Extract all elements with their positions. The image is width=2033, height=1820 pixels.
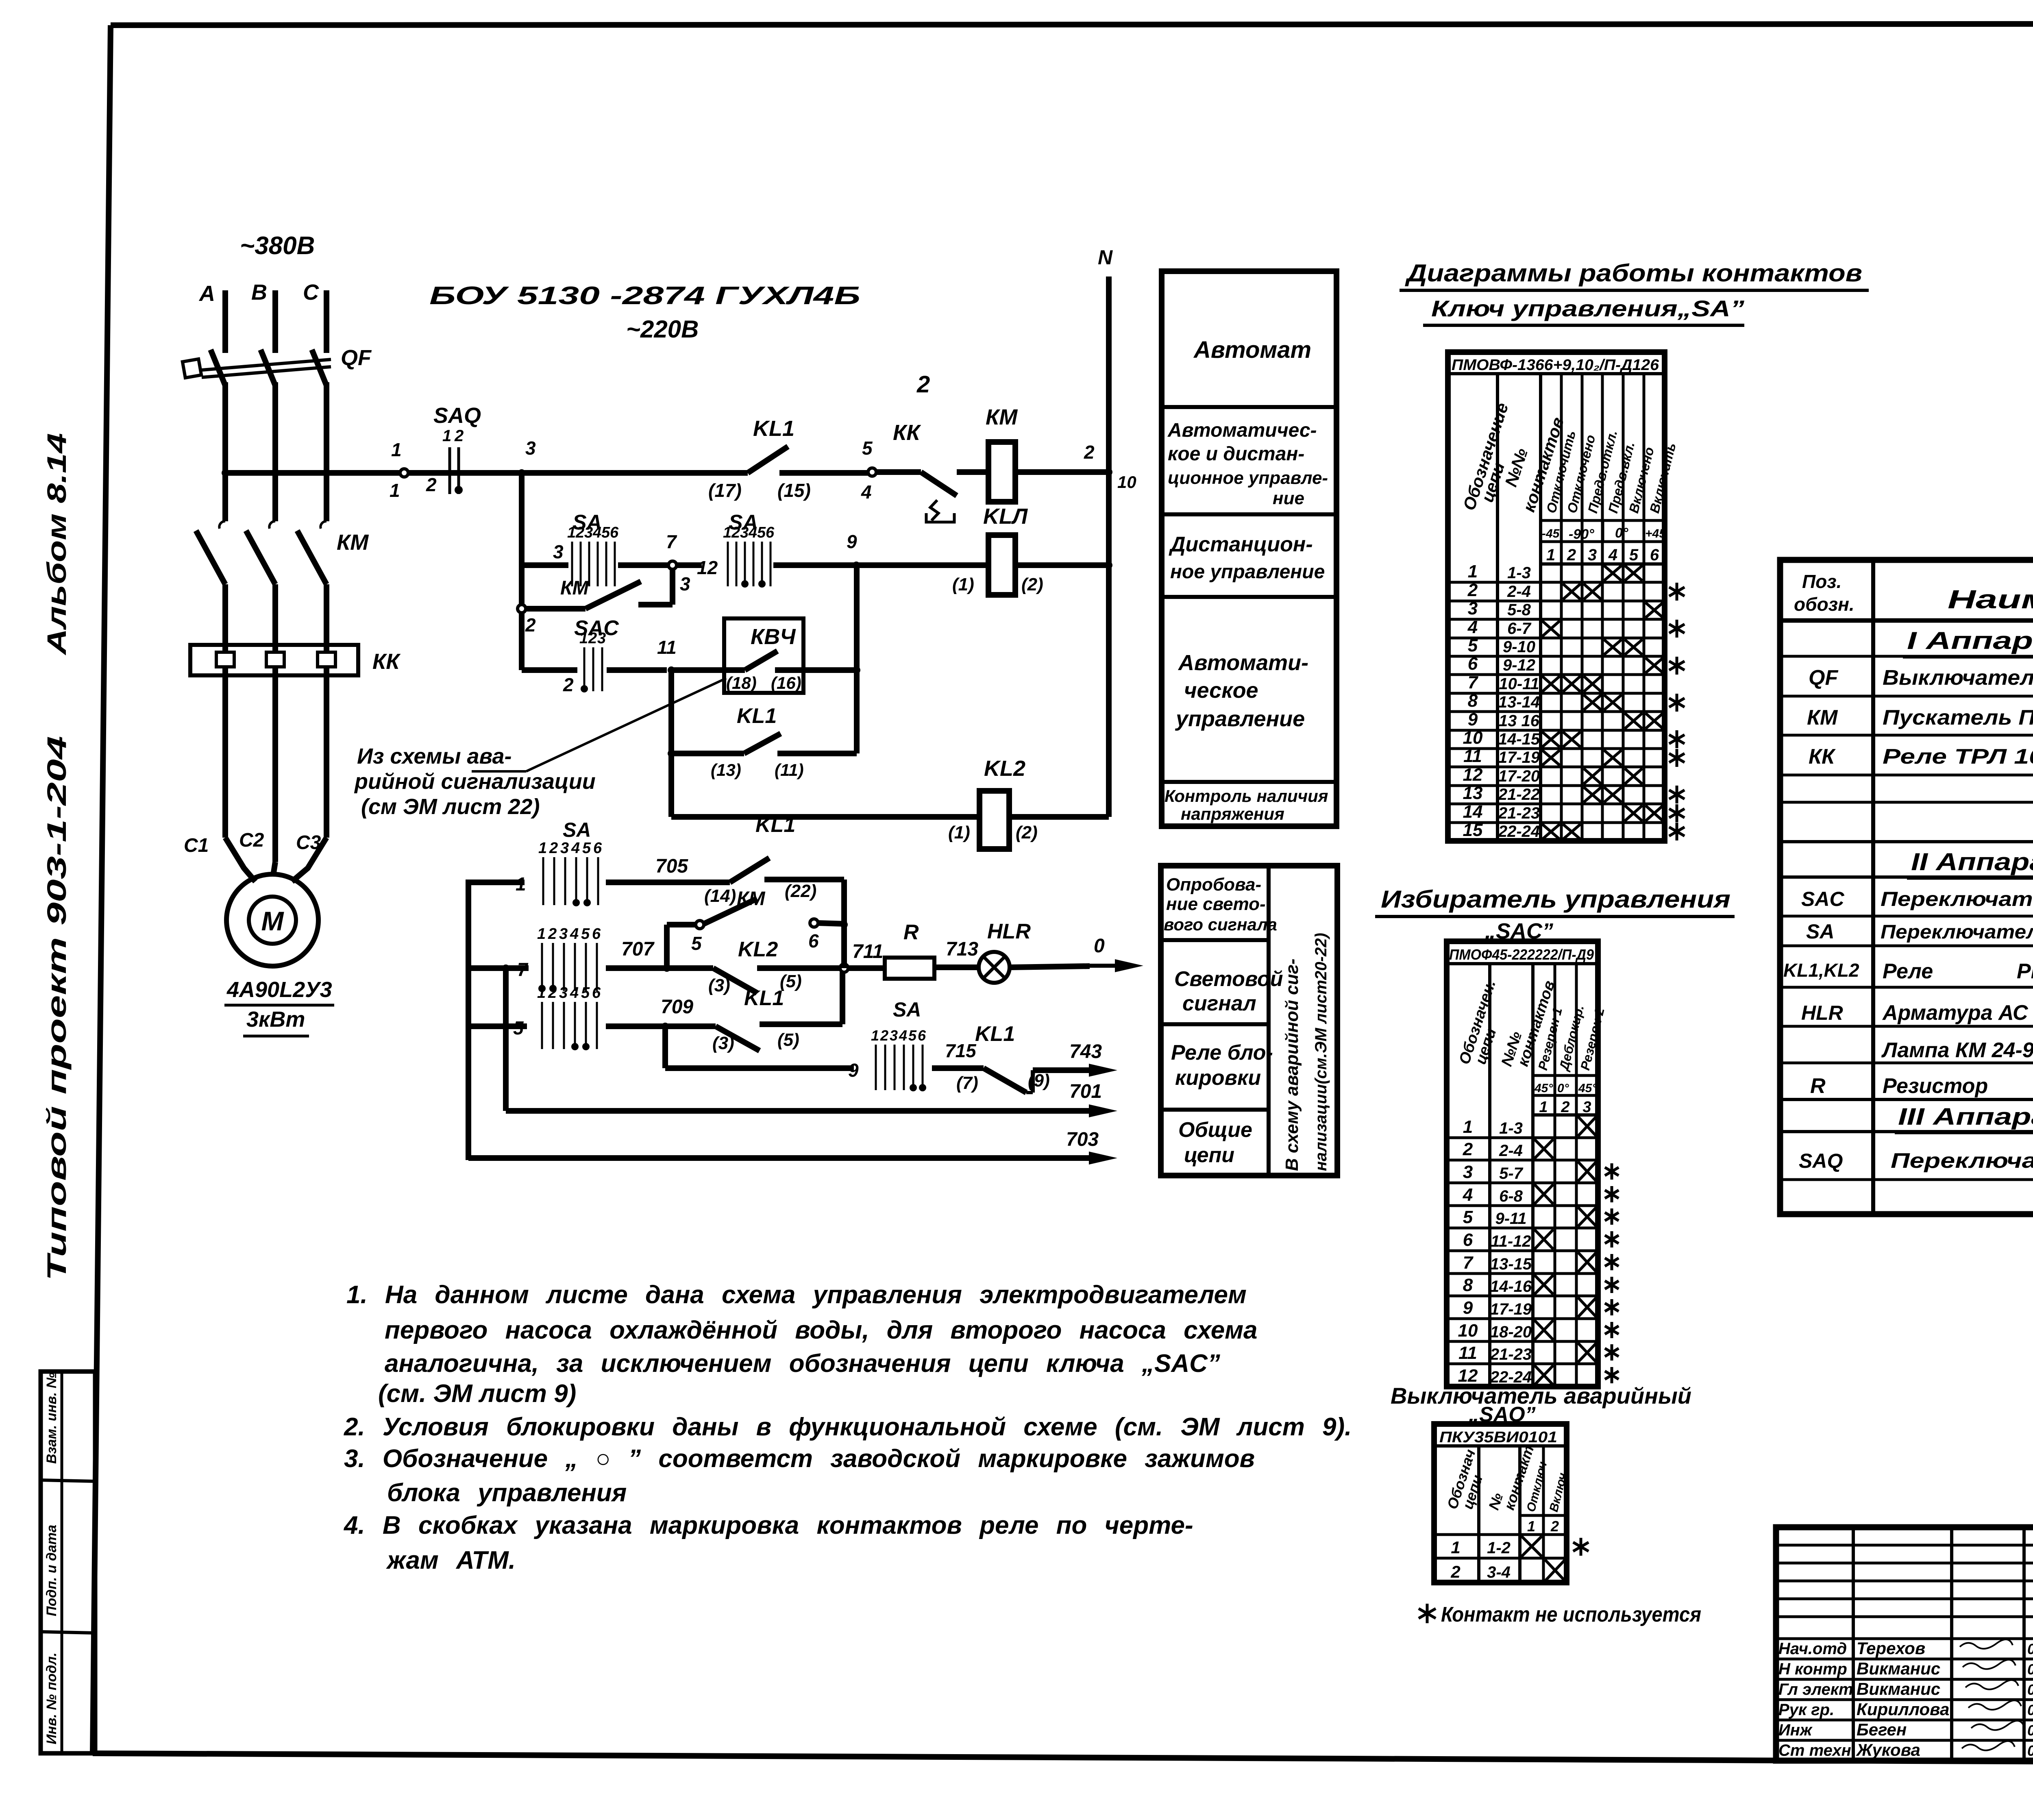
svg-text:ПМОФ45-222222/П-Д9: ПМОФ45-222222/П-Д9 (1449, 946, 1594, 963)
svg-text:6-7: 6-7 (1507, 620, 1532, 638)
svg-text:Опробова-: Опробова- (1166, 875, 1261, 895)
key switch SA row 707 (circuit 7) (468, 965, 529, 971)
svg-text:709: 709 (661, 996, 693, 1018)
svg-text:4: 4 (748, 524, 757, 541)
wire left boundary of signal circuit (468, 882, 525, 1160)
wires KM to KK (222, 584, 228, 645)
table: emergency switch SAQ (1434, 1424, 1567, 1583)
svg-text:09 83: 09 83 (2027, 1661, 2033, 1678)
svg-text:3: 3 (553, 541, 564, 562)
svg-text:Беген: Беген (1857, 1720, 1907, 1739)
wire/arrow 701 (502, 964, 509, 972)
svg-text:6: 6 (808, 930, 819, 951)
svg-text:(см. ЭМ лист 9): (см. ЭМ лист 9) (378, 1380, 576, 1408)
svg-text:13-14: 13-14 (1498, 693, 1540, 711)
svg-text:(2): (2) (1016, 823, 1038, 843)
svg-text:SA: SA (563, 819, 591, 841)
svg-text:2: 2 (880, 1027, 888, 1044)
svg-text:711: 711 (852, 941, 884, 962)
svg-text:10: 10 (1458, 1321, 1478, 1341)
svg-text:6: 6 (1463, 1230, 1473, 1250)
svg-text:03 81: 03 81 (2027, 1641, 2033, 1657)
wire/arrow 0 (1010, 966, 1090, 967)
svg-text:4: 4 (570, 984, 579, 1001)
svg-text:~220В: ~220В (626, 316, 699, 343)
svg-text:Викманис: Викманис (1857, 1659, 1940, 1678)
svg-text:(13): (13) (711, 760, 741, 779)
svg-text:~380В: ~380В (240, 232, 315, 260)
margin stamp boxes (Взам.инв.№ / Подп. и дата / Инв.№ подл.) (41, 1372, 95, 1753)
svg-text:5: 5 (513, 1017, 524, 1038)
svg-text:С3: С3 (296, 832, 321, 853)
svg-text:Викманис: Викманис (1857, 1679, 1940, 1698)
svg-text:09 83: 09 83 (2027, 1681, 2033, 1698)
svg-text:Из схемы ава-: Из схемы ава- (357, 744, 512, 768)
svg-text:4: 4 (1467, 617, 1478, 637)
svg-text:6-8: 6-8 (1499, 1187, 1523, 1205)
svg-text:5: 5 (1468, 636, 1478, 655)
svg-text:цепи: цепи (1184, 1143, 1234, 1167)
svg-text:3: 3 (1468, 599, 1478, 618)
svg-text:9: 9 (847, 531, 857, 552)
thermal relay KK heaters (190, 645, 358, 675)
svg-text:КК: КК (372, 649, 401, 674)
svg-text:45°: 45° (1578, 1082, 1597, 1095)
svg-text:(1): (1) (948, 823, 970, 843)
svg-text:KL2: KL2 (738, 938, 778, 961)
svg-text:2: 2 (916, 371, 930, 398)
table: parts list (1780, 560, 2033, 1214)
table: key switch SA contact diagram (1448, 352, 1665, 841)
svg-text:(7): (7) (956, 1073, 978, 1093)
svg-text:рийной сигнализации: рийной сигнализации (354, 769, 596, 794)
svg-text:С: С (303, 280, 319, 305)
signature rows (1776, 1658, 2033, 1661)
svg-text:5-7: 5-7 (1499, 1165, 1524, 1182)
svg-text:09 83: 09 83 (2027, 1702, 2033, 1718)
svg-text:КВЧ: КВЧ (751, 625, 796, 649)
svg-text:12: 12 (1463, 765, 1483, 785)
svg-text:ние свето-: ние свето- (1166, 894, 1266, 914)
svg-text:Типовой проект 903-1-204: Типовой проект 903-1-204 (41, 736, 72, 1281)
contactor aux contact KM (5)-(6) (664, 925, 670, 968)
svg-text:ние: ние (1273, 488, 1304, 508)
svg-text:7: 7 (1463, 1253, 1474, 1273)
svg-text:8: 8 (1463, 1275, 1473, 1295)
svg-text:N: N (1098, 246, 1113, 269)
svg-text:Диаграммы работы контактов: Диаграммы работы контактов (1404, 259, 1862, 287)
svg-text:(см ЭМ лист 22): (см ЭМ лист 22) (361, 795, 540, 819)
svg-text:вого сигнала: вого сигнала (1164, 915, 1277, 934)
svg-text:SAQ: SAQ (433, 403, 481, 428)
svg-text:1: 1 (1463, 1117, 1473, 1137)
svg-text:ПМОВФ-1366+9,10₂/П-Д126: ПМОВФ-1366+9,10₂/П-Д126 (1452, 357, 1659, 374)
svg-text:13: 13 (1463, 783, 1483, 803)
svg-text:4: 4 (571, 840, 580, 857)
wire vertical from node 9 (854, 565, 860, 753)
svg-text:5: 5 (1629, 546, 1639, 564)
svg-text:1: 1 (537, 984, 546, 1001)
svg-text:45°: 45° (1534, 1082, 1553, 1095)
svg-text:(3): (3) (712, 1033, 734, 1053)
wire: main control bus (222, 469, 229, 477)
svg-text:+45: +45 (1645, 527, 1666, 540)
svg-text:5: 5 (908, 1027, 917, 1044)
svg-text:2: 2 (1567, 546, 1576, 564)
svg-text:Переключатель ПКУ3-58И0101: Переключатель ПКУ3-58И0101 (1891, 1149, 2033, 1173)
svg-text:Избиратель управления: Избиратель управления (1381, 886, 1730, 913)
svg-text:III Аппараты у электродвига: III Аппараты у электродвигателя (1898, 1104, 2033, 1130)
svg-text:II Аппараты на щите КИП: II Аппараты на щите КИП (1911, 848, 2033, 875)
svg-text:КМ: КМ (986, 405, 1018, 429)
svg-text:9-10: 9-10 (1503, 638, 1535, 656)
svg-text:5: 5 (601, 524, 610, 541)
svg-text:1: 1 (538, 840, 547, 857)
svg-text:2. Условия блокировки дан: 2. Условия блокировки даны в функциональ… (344, 1413, 1352, 1441)
svg-text:7: 7 (1468, 673, 1479, 692)
svg-text:нализации(см.ЭМ лист20-22): нализации(см.ЭМ лист20-22) (1312, 933, 1330, 1171)
svg-text:-45: -45 (1542, 527, 1560, 540)
svg-text:жам АТМ.: жам АТМ. (386, 1546, 516, 1574)
svg-text:аналогична, за исключением: аналогична, за исключением обозначения ц… (385, 1350, 1220, 1378)
svg-text:кое и дистан-: кое и дистан- (1168, 443, 1304, 465)
svg-text:Дистанцион-: Дистанцион- (1169, 533, 1313, 556)
svg-text:4. В скобках указана марк: 4. В скобках указана маркировка контакто… (343, 1511, 1193, 1539)
svg-text:21-23: 21-23 (1498, 804, 1540, 822)
svg-text:1: 1 (567, 524, 576, 541)
relay contact KL1 (13)-(11) (668, 670, 674, 817)
svg-text:2: 2 (454, 427, 464, 445)
svg-text:09 83: 09 83 (2027, 1722, 2033, 1739)
svg-text:2: 2 (549, 840, 558, 857)
svg-text:6: 6 (592, 984, 601, 1001)
svg-text:КМ: КМ (560, 577, 589, 599)
svg-text:В схему аварийной сиг-: В схему аварийной сиг- (1282, 958, 1302, 1171)
svg-text:Реле ТРЛ 1010 04 Iуст: Реле ТРЛ 1010 04 Iуст 6,1А (1883, 745, 2033, 768)
svg-text:Резистор: Резистор (1883, 1074, 1988, 1098)
svg-text:1-3: 1-3 (1507, 564, 1531, 582)
sheet frame border (111, 24, 2033, 25)
svg-text:напряжения: напряжения (1181, 804, 1284, 823)
svg-text:Контакт не используется: Контакт не используется (1441, 1603, 1701, 1626)
contactor aux contact KM bypass (519, 565, 525, 605)
svg-text:713: 713 (946, 938, 978, 960)
svg-text:3: 3 (890, 1027, 898, 1044)
svg-text:Световой: Световой (1174, 967, 1283, 991)
svg-text:2: 2 (1550, 1518, 1559, 1535)
svg-text:1: 1 (537, 925, 546, 943)
svg-text:5: 5 (1463, 1207, 1473, 1227)
svg-text:2: 2 (1450, 1562, 1460, 1581)
svg-text:KL1: KL1 (744, 986, 784, 1010)
svg-text:3-4: 3-4 (1487, 1563, 1511, 1581)
function label column (upper) (1162, 271, 1336, 826)
svg-text:КМ: КМ (337, 530, 369, 555)
svg-text:1: 1 (391, 439, 402, 460)
svg-text:1: 1 (442, 427, 451, 445)
svg-text:10: 10 (1117, 472, 1136, 492)
svg-text:6: 6 (592, 925, 601, 943)
svg-text:R: R (1810, 1074, 1826, 1098)
svg-text:17-19: 17-19 (1498, 749, 1540, 766)
svg-text:2: 2 (588, 630, 597, 647)
function label column (lower) (1161, 866, 1337, 1176)
svg-text:2: 2 (563, 674, 574, 695)
svg-text:09 83: 09 83 (2027, 1742, 2033, 1759)
svg-text:1. На данном листе дана с: 1. На данном листе дана схема управления… (346, 1281, 1247, 1309)
svg-text:HLR: HLR (987, 920, 1031, 943)
svg-text:I Аппараты на НКУ: I Аппараты на НКУ (1907, 627, 2033, 654)
svg-text:2: 2 (1561, 1099, 1569, 1116)
svg-text:21-23: 21-23 (1490, 1345, 1532, 1363)
svg-text:715: 715 (945, 1040, 977, 1061)
svg-text:SAC: SAC (1801, 888, 1844, 910)
svg-text:21-22: 21-22 (1498, 786, 1540, 803)
title block (1776, 1527, 2033, 1761)
svg-text:А: А (198, 281, 215, 306)
key switch SA (circuit 3-7) (522, 562, 568, 568)
phase wires below QF (222, 382, 228, 521)
svg-text:1: 1 (1468, 562, 1478, 581)
svg-text:ционное управле-: ционное управле- (1168, 468, 1328, 488)
svg-text:2-4: 2-4 (1507, 583, 1531, 601)
svg-text:13-15: 13-15 (1490, 1255, 1532, 1273)
svg-text:Поз.: Поз. (1802, 571, 1841, 592)
svg-text:701: 701 (1069, 1081, 1102, 1102)
svg-text:(22): (22) (785, 881, 816, 901)
svg-text:1: 1 (1546, 546, 1555, 564)
svg-text:3: 3 (525, 438, 536, 459)
note: контакт не используется (1426, 1604, 1429, 1623)
svg-text:14-16: 14-16 (1490, 1278, 1532, 1295)
svg-text:9: 9 (848, 1060, 859, 1081)
svg-text:3: 3 (559, 984, 568, 1001)
svg-text:3: 3 (1588, 546, 1597, 564)
node 2/10 on N (1105, 468, 1112, 476)
contact block KV4 (18)-(16) (724, 618, 803, 693)
svg-text:1-2: 1-2 (1487, 1539, 1511, 1557)
svg-text:Нач.отд: Нач.отд (1778, 1640, 1847, 1658)
svg-text:9-11: 9-11 (1495, 1210, 1526, 1228)
svg-text:7: 7 (666, 531, 677, 552)
svg-text:3: 3 (680, 573, 690, 594)
svg-text:(14): (14) (704, 886, 736, 906)
svg-text:0°: 0° (1557, 1082, 1569, 1095)
svg-text:Жукова: Жукова (1856, 1740, 1920, 1759)
svg-text:РПУ-2: РПУ-2 (2017, 960, 2033, 983)
relay coil KL2 (1)-(2) (671, 814, 979, 820)
svg-text:11: 11 (657, 637, 677, 658)
svg-text:18-20: 18-20 (1490, 1323, 1532, 1341)
svg-text:(17): (17) (708, 480, 742, 501)
svg-text:0°: 0° (1615, 525, 1628, 541)
svg-text:4: 4 (861, 481, 872, 503)
svg-text:2: 2 (1084, 442, 1095, 463)
svg-text:0: 0 (1094, 935, 1105, 957)
svg-text:В: В (251, 280, 267, 305)
svg-text:4: 4 (1608, 546, 1617, 564)
wire/arrow 743 (1033, 1067, 1090, 1073)
svg-text:Н контр: Н контр (1778, 1660, 1847, 1678)
relay contact KL1 (17)-(15) on bus (748, 446, 788, 473)
svg-text:3: 3 (559, 925, 568, 943)
svg-text:17-19: 17-19 (1490, 1300, 1532, 1318)
svg-text:Арматура АС 1201 1У2: Арматура АС 1201 1У2 (1882, 1001, 2033, 1025)
svg-text:3: 3 (560, 840, 569, 857)
svg-text:Реле бло-: Реле бло- (1171, 1041, 1273, 1065)
svg-text:2: 2 (548, 925, 557, 943)
svg-text:(5): (5) (777, 1030, 799, 1050)
svg-text:2: 2 (731, 524, 740, 541)
svg-text:1: 1 (579, 630, 588, 647)
wire down to row 715 (662, 1026, 668, 1068)
svg-text:3: 3 (740, 524, 749, 541)
svg-text:R: R (903, 921, 919, 944)
svg-text:5: 5 (757, 524, 766, 541)
svg-text:KLЛ: KLЛ (983, 504, 1028, 529)
svg-text:Альбом 8.14: Альбом 8.14 (41, 433, 72, 656)
svg-text:5: 5 (691, 933, 702, 954)
svg-text:6: 6 (766, 524, 775, 541)
svg-text:2: 2 (1463, 1139, 1473, 1159)
svg-text:14-15: 14-15 (1498, 730, 1540, 748)
svg-text:5: 5 (581, 984, 590, 1001)
svg-text:6: 6 (1650, 546, 1659, 564)
svg-text:703: 703 (1066, 1129, 1099, 1150)
svg-text:4: 4 (570, 925, 579, 943)
svg-text:первого насоса охлаждённой: первого насоса охлаждённой воды, для вто… (385, 1316, 1258, 1344)
svg-text:Автомат: Автомат (1193, 337, 1311, 363)
svg-text:743: 743 (1069, 1041, 1102, 1062)
svg-text:Ст техн: Ст техн (1778, 1742, 1851, 1759)
svg-text:5-8: 5-8 (1507, 601, 1531, 619)
svg-text:12: 12 (697, 557, 718, 578)
svg-text:5: 5 (582, 840, 591, 857)
svg-text:БОУ 5130 -2874 ГУХЛ4Б: БОУ 5130 -2874 ГУХЛ4Б (429, 282, 860, 310)
svg-text:11: 11 (1463, 746, 1482, 766)
svg-text:8: 8 (1468, 691, 1478, 711)
svg-text:ное управление: ное управление (1170, 561, 1325, 583)
svg-text:Пускатель ПМЛ-110004БИ~220В: Пускатель ПМЛ-110004БИ~220В (1883, 706, 2033, 729)
svg-text:Инв. № подл.: Инв. № подл. (44, 1652, 59, 1744)
svg-text:QF: QF (1809, 666, 1838, 690)
svg-text:Выключатель аварийный: Выключатель аварийный (1391, 1383, 1691, 1409)
svg-text:ческое: ческое (1184, 678, 1258, 703)
svg-text:KL1: KL1 (737, 704, 777, 728)
node 7/3 terminal (668, 561, 677, 569)
wire/arrow 703 (468, 1155, 1090, 1161)
svg-text:QF: QF (341, 346, 372, 370)
svg-text:9: 9 (1463, 1298, 1473, 1318)
svg-text:Рук гр.: Рук гр. (1778, 1701, 1834, 1719)
svg-text:KL1,KL2: KL1,KL2 (1783, 960, 1859, 981)
svg-text:17-20: 17-20 (1498, 767, 1540, 785)
svg-text:SA: SA (1806, 920, 1834, 943)
svg-text:Автомати-: Автомати- (1178, 651, 1308, 675)
svg-text:4: 4 (592, 524, 601, 541)
svg-text:4: 4 (899, 1027, 907, 1044)
svg-text:9-12: 9-12 (1503, 656, 1535, 674)
svg-text:2-4: 2-4 (1499, 1142, 1523, 1160)
svg-text:3: 3 (584, 524, 593, 541)
svg-text:1: 1 (871, 1027, 879, 1044)
svg-text:1-3: 1-3 (1499, 1119, 1523, 1137)
wire down to SAC row (519, 613, 525, 670)
svg-text:КК: КК (1809, 745, 1836, 768)
svg-text:2: 2 (575, 524, 584, 541)
svg-text:обозн.: обозн. (1794, 594, 1855, 615)
svg-text:2: 2 (525, 614, 536, 636)
resistor R (848, 965, 885, 971)
svg-text:6: 6 (610, 524, 619, 541)
svg-text:С2: С2 (239, 829, 264, 851)
svg-text:Кириллова: Кириллова (1857, 1700, 1949, 1719)
svg-text:Инж: Инж (1778, 1721, 1813, 1739)
svg-text:6: 6 (593, 840, 602, 857)
phase wires A,B,C top (222, 290, 228, 353)
svg-text:Наименование: Наименование (1948, 585, 2033, 614)
svg-text:Лампа КМ 24-90: Лампа КМ 24-90 (1881, 1038, 2033, 1062)
node 5/4 terminal (868, 468, 876, 476)
key switch SA row 709 (circuit 5) (468, 1023, 527, 1029)
svg-text:11-12: 11-12 (1491, 1232, 1531, 1250)
svg-text:3. Обозначение „ ○ ” соот: 3. Обозначение „ ○ ” соответст заводской… (344, 1445, 1255, 1473)
relay contact KL1 (14)-(22) row 705 (730, 858, 769, 882)
svg-text:3: 3 (1582, 1099, 1591, 1116)
svg-text:6: 6 (1468, 654, 1478, 674)
wire: node3 down (519, 473, 525, 565)
svg-text:Переключатель ПМОВФ 1366+9,10₂: Переключатель ПМОВФ 1366+9,10₂/П-Д126 (1881, 921, 2033, 943)
svg-text:KL1: KL1 (755, 813, 795, 837)
svg-text:11: 11 (1458, 1343, 1477, 1363)
svg-text:(3): (3) (708, 975, 730, 995)
svg-text:4: 4 (1463, 1185, 1473, 1205)
svg-text:ВыключательАЕ2016-10НУЗ Iр 8: ВыключательАЕ2016-10НУЗ Iр 8А (1883, 666, 2033, 690)
svg-text:7: 7 (517, 959, 529, 980)
svg-text:1: 1 (1451, 1538, 1460, 1557)
svg-text:-90°: -90° (1569, 527, 1594, 542)
svg-text:(2): (2) (1021, 575, 1043, 594)
svg-text:10: 10 (1463, 728, 1483, 748)
svg-text:707: 707 (621, 938, 655, 960)
svg-text:(11): (11) (775, 760, 804, 779)
contactor KM main contacts (219, 521, 225, 529)
svg-text:22-24: 22-24 (1498, 823, 1540, 840)
wire vertical 705->707 (841, 880, 847, 968)
svg-text:KL1: KL1 (753, 416, 794, 441)
svg-text:KL1: KL1 (975, 1022, 1015, 1046)
svg-text:блока управления: блока управления (387, 1479, 627, 1507)
svg-text:КМ: КМ (1807, 706, 1838, 729)
svg-text:2: 2 (548, 984, 557, 1001)
motor M (226, 874, 318, 966)
wires KK to motor (222, 675, 228, 838)
svg-text:6: 6 (918, 1027, 926, 1044)
svg-text:KL2: KL2 (984, 756, 1025, 781)
svg-text:Ключ управления„SA”: Ключ управления„SA” (1431, 296, 1744, 321)
table: selector switch SAC (1447, 941, 1598, 1387)
svg-text:9: 9 (1468, 710, 1478, 729)
circuit breaker QF (211, 350, 225, 385)
svg-text:Подп. и дата: Подп. и дата (44, 1525, 59, 1616)
svg-text:3: 3 (1463, 1162, 1473, 1182)
svg-text:Автоматичес-: Автоматичес- (1167, 420, 1317, 441)
svg-text:3кВт: 3кВт (246, 1007, 305, 1032)
svg-text:С1: С1 (184, 835, 209, 856)
node 711 (840, 964, 848, 972)
svg-text:1: 1 (723, 524, 731, 541)
svg-text:Контроль наличия: Контроль наличия (1165, 786, 1328, 806)
